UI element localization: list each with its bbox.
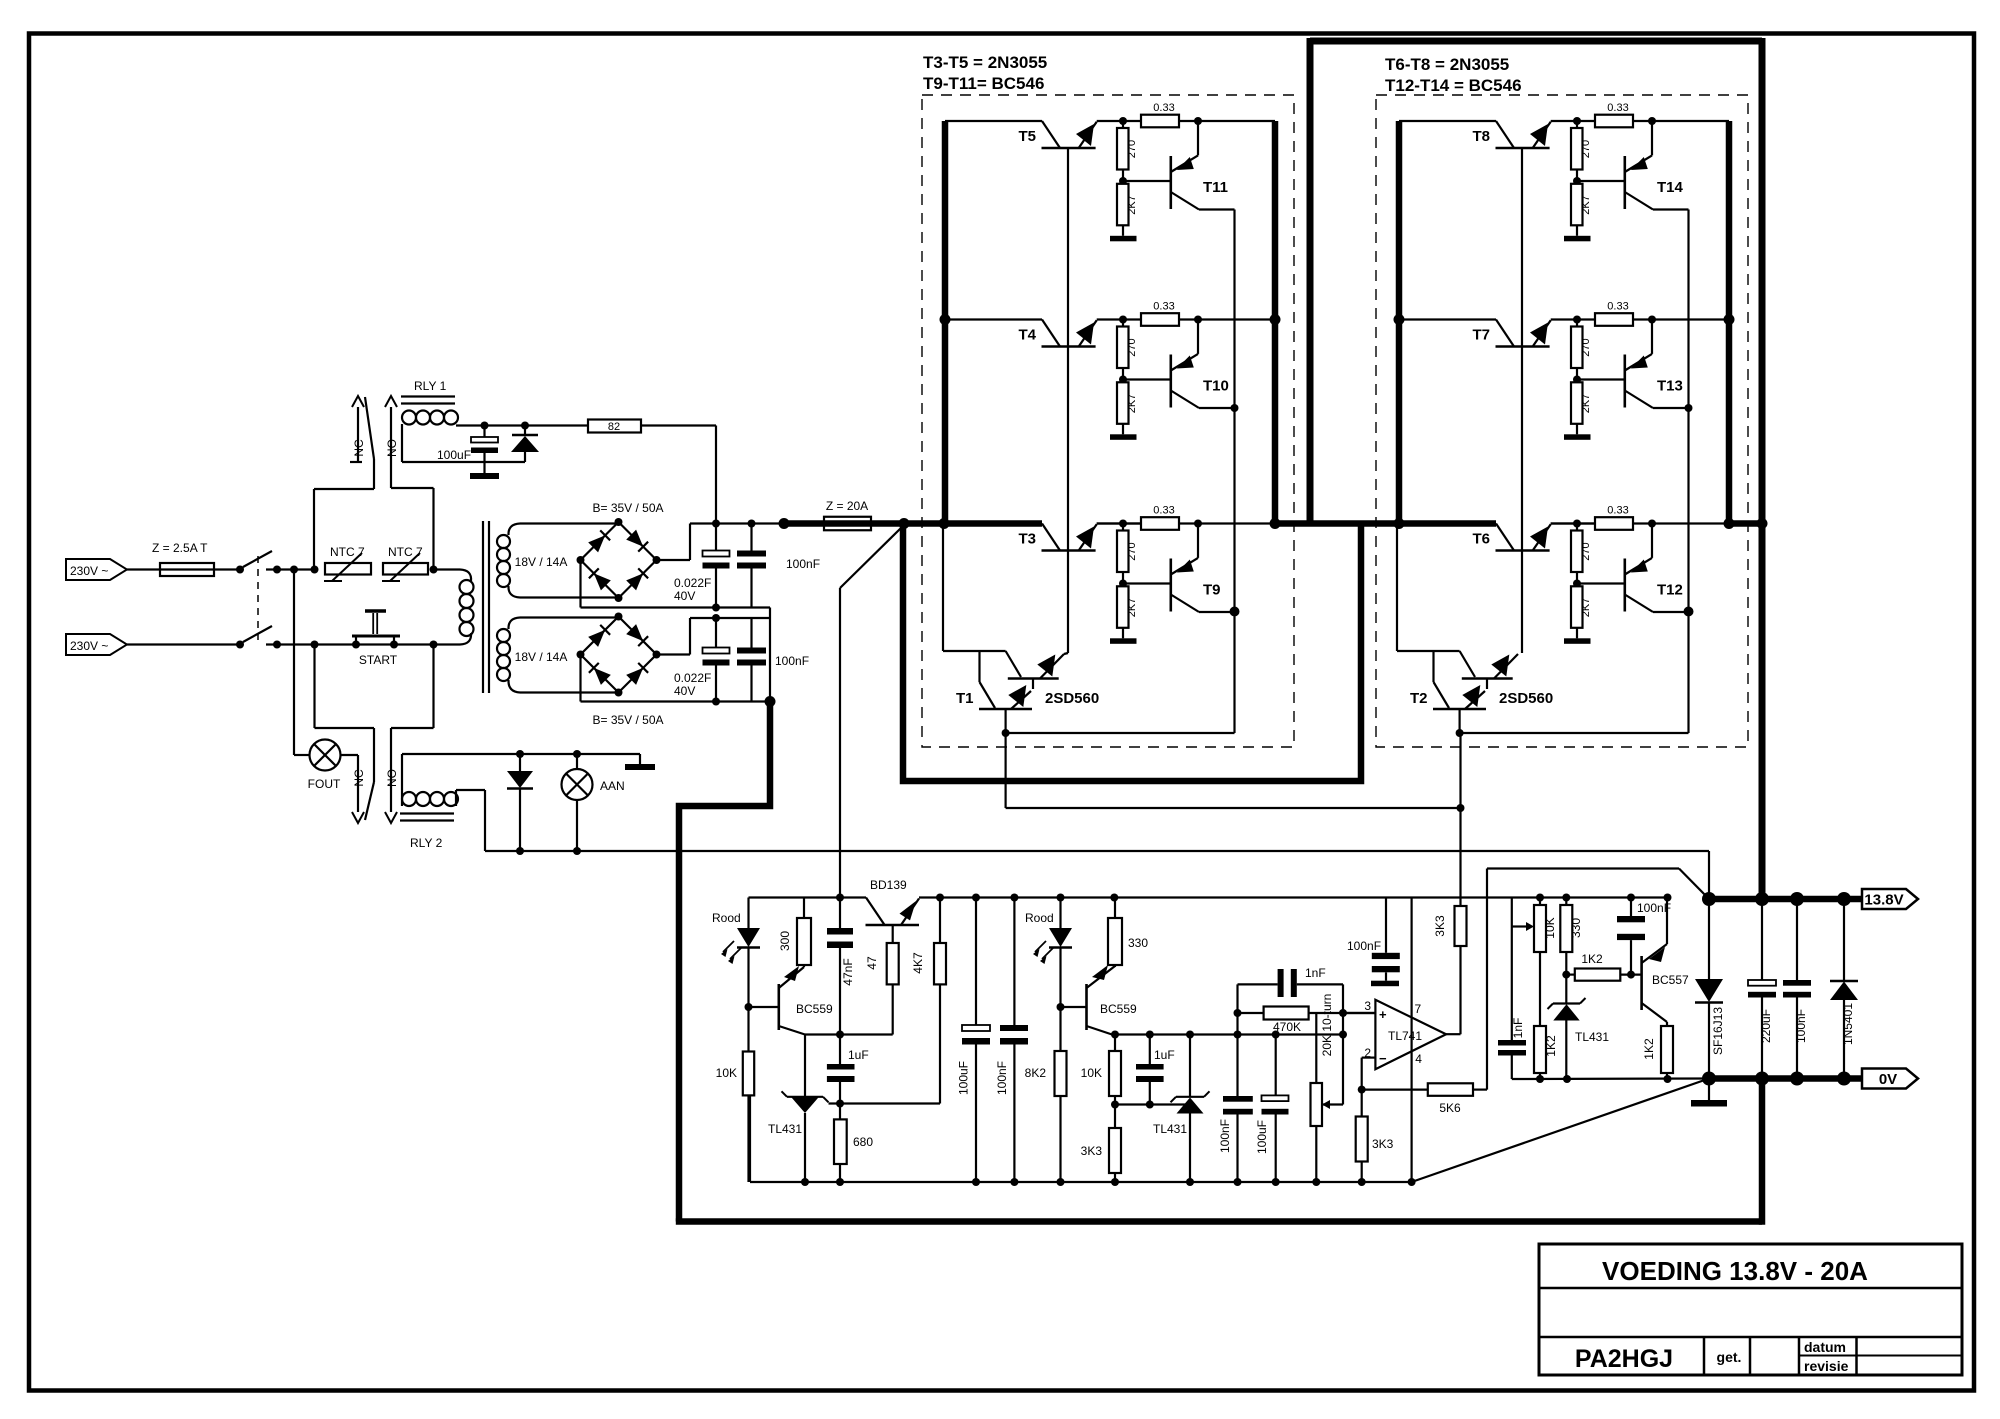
resistor 0.33 T3 [1141,517,1179,530]
svg-text:T7: T7 [1472,327,1490,344]
svg-text:T2: T2 [1410,690,1428,707]
node base T10 [1122,368,1124,382]
resistor 680 [839,1104,841,1120]
svg-text:18V / 14A: 18V / 14A [515,650,568,664]
svg-text:5K6: 5K6 [1439,1101,1461,1115]
wire 0.33 to emitter rail T7 [1633,318,1729,320]
wire op-amp +input [1343,1012,1375,1014]
svg-text:0.33: 0.33 [1607,102,1628,114]
svg-text:470K: 470K [1273,1020,1301,1034]
relay contact RLY2 NO [432,645,434,729]
ground T3 row [1122,628,1124,639]
mechanical link dashed [257,556,259,640]
svg-text:T8: T8 [1472,128,1490,145]
svg-text:0.33: 0.33 [1607,301,1628,313]
resistor 0.33 T5 [1141,115,1179,128]
transistor T2 2SD560 stage B [1432,651,1434,682]
wire T2 base to drivers [1460,732,1689,734]
wire switch1 to NTC node [266,568,315,570]
node base T11 [1122,170,1124,184]
wire emitter T5 [1097,120,1141,122]
capacitor 100uF RLY1 [483,426,485,438]
wire 0.33 to emitter rail T4 [1179,318,1275,320]
svg-text:2K7: 2K7 [1580,394,1592,414]
relay contact RLY1 NC [352,396,364,407]
wire emitter T7 [1551,318,1595,320]
svg-text:T5: T5 [1018,128,1036,145]
wire collector row T4 [945,318,1042,320]
capacitor 1nF limiter [1498,1040,1526,1046]
svg-text:680: 680 [853,1135,873,1149]
wire RLY1 bottom rail [402,461,525,463]
wire emitter T9 [1199,611,1235,613]
svg-text:300: 300 [778,931,792,951]
transformer primary [434,568,461,570]
svg-text:2SD560: 2SD560 [1499,690,1553,707]
svg-text:8K2: 8K2 [1025,1066,1047,1080]
capacitor 100nF bank A [750,524,752,551]
bridge rectifier B2 35V/50A [581,617,657,693]
svg-text:TL741: TL741 [1388,1029,1422,1043]
svg-text:3K3: 3K3 [1433,915,1447,937]
wire mains N to switch [127,643,240,645]
wire fuse to switch [214,568,240,570]
resistor 10K 2 [1114,1035,1116,1052]
wire filter neg vertical [769,608,771,702]
wire op-amp output [1446,1033,1460,1035]
svg-text:100nF: 100nF [1794,1009,1808,1043]
transistor T12 BC546 [1624,559,1627,612]
resistor 470K [1238,1012,1264,1014]
svg-text:FOUT: FOUT [308,777,341,791]
svg-text:330: 330 [1569,918,1583,938]
ground T7 row [1576,424,1578,435]
node base T14 [1576,170,1578,184]
resistor 47 BD139 base [892,925,894,943]
node base T12 [1576,572,1578,586]
resistor 1K2 horizontal [1566,973,1575,975]
wire bank2 base rail [1521,148,1523,653]
wire T2 base down to 3K3 [1459,733,1461,906]
thick bottom wire [676,1218,1762,1225]
svg-text:4K7: 4K7 [911,952,925,974]
resistor 270 T4 row [1122,320,1124,327]
relay contact RLY2 blade [365,782,374,820]
ground T8 row [1576,225,1578,236]
svg-text:TL431: TL431 [1575,1030,1609,1044]
resistor 270 T3 row [1122,524,1124,531]
capacitor 1uF 1 [839,1035,841,1065]
ground T4 row [1122,424,1124,435]
resistor 330 1 [1114,898,1116,919]
wire BC559-2 emitter row [1112,1033,1343,1035]
svg-text:T6-T8 = 2N3055: T6-T8 = 2N3055 [1385,55,1509,74]
wire RLY2 coil right leg [455,790,457,806]
capacitor 100uF reg 1 [1275,1035,1277,1096]
svg-text:1K2: 1K2 [1581,952,1603,966]
wire bank2 row3 emitter thin [1551,522,1595,524]
svg-text:1K2: 1K2 [1544,1035,1558,1057]
wire collector row T7 [1399,318,1496,320]
svg-text:Rood: Rood [712,911,741,925]
svg-text:270: 270 [1126,140,1138,158]
wire emitter T11 [1199,208,1235,210]
resistor 0.33 T4 [1141,313,1179,326]
svg-text:VOEDING 13.8V - 20A: VOEDING 13.8V - 20A [1602,1256,1868,1286]
svg-text:BC559: BC559 [796,1002,833,1016]
resistor 0.33 T8 [1595,115,1633,128]
transistor T14 BC546 [1624,156,1627,209]
svg-text:START: START [359,653,398,667]
resistor 3K3 drive [1459,946,1461,1034]
svg-text:100nF: 100nF [786,557,820,571]
svg-text:NO: NO [385,769,399,787]
resistor 2K7 T5 row [1117,184,1129,226]
wire ground diagonal [1412,1079,1709,1183]
ground RLY2 rail [639,754,641,764]
svg-text:82: 82 [608,421,620,433]
svg-text:40V: 40V [674,589,695,603]
svg-text:270: 270 [1580,338,1592,356]
wire B2 plus [657,653,691,655]
wire 0.33 to emitter rail T8 [1633,120,1729,122]
resistor 0.33 T7 [1595,313,1633,326]
transistor T2 2SD560 stage A [1460,651,1475,677]
svg-text:−: − [1379,1051,1387,1066]
pushbutton START [352,635,400,638]
diode RLY2 flyback [519,754,521,771]
wire B1 minus [579,560,581,608]
capacitor 1uF 2 [1149,1035,1151,1065]
wire emitter T12 [1653,611,1689,613]
svg-text:40V: 40V [674,684,695,698]
thick return loop U [903,526,1361,781]
wire collector row T8 [1399,120,1496,122]
wire FOUT to RLY2 NC [341,754,359,756]
wire RLY2 top rail [402,753,640,755]
svg-text:SF16J13: SF16J13 [1711,1007,1725,1055]
wire switch2 to transformer node [266,643,434,645]
ground RLY1 [483,462,485,473]
connector 230V line 2 [66,634,127,655]
resistor 3K3 emitter BC559-2 [1109,1128,1121,1173]
transistor T11 BC546 [1170,156,1173,209]
svg-text:TL431: TL431 [768,1122,802,1136]
svg-text:T4: T4 [1018,327,1036,344]
capacitor 100nF output [1796,899,1798,980]
dashed box bank 2 [1376,95,1748,747]
zener TL431 3 [1553,1002,1580,1004]
svg-text:1nF: 1nF [1305,966,1326,980]
capacitor 100nF main filter [1013,898,1015,1026]
svg-text:2K7: 2K7 [1126,394,1138,414]
svg-text:3: 3 [1364,999,1371,1013]
svg-text:18V / 14A: 18V / 14A [515,555,568,569]
wire T1 base to T2 base link [1004,733,1006,808]
node base T13 [1576,368,1578,382]
resistor 3K3 inverting [1361,1090,1363,1117]
wire collector row T5 [945,120,1042,122]
resistor 2K7 T6 row [1571,586,1583,628]
capacitor 0.022F 40V bank B [715,618,717,648]
svg-text:7: 7 [1415,1002,1422,1016]
resistor 5K6 [1362,1088,1428,1090]
resistor 270 T5 row [1122,121,1124,128]
wire bus to control dropper [840,526,903,588]
svg-text:100nF: 100nF [995,1061,1009,1095]
bridge rectifier B1 35V/50A [581,522,657,598]
connector 230V line 1 [66,559,127,580]
transistor T7 2N3055 [1496,320,1514,347]
svg-text:100uF: 100uF [1255,1120,1269,1154]
svg-text:datum: datum [1804,1339,1846,1355]
ground op-amp cap [1371,981,1399,987]
svg-text:1nF: 1nF [1511,1018,1525,1039]
svg-text:0.022F: 0.022F [674,671,711,685]
resistor 4K7 [939,898,941,944]
rail bank1 emitters [1272,121,1279,526]
wire RLY2 bottom rail to output sense [485,850,1709,852]
wire minus rail 2 [581,700,771,702]
wire T1 emitter to base rail [1064,653,1068,654]
svg-text:230V ~: 230V ~ [70,564,108,578]
wire limiter ground rail [1512,1077,1709,1080]
svg-text:Z = 2.5A T: Z = 2.5A T [152,541,208,555]
capacitor 0.022F 40V bank A [715,524,717,551]
wire main bus right [1729,520,1762,527]
svg-text:1uF: 1uF [848,1048,869,1062]
wire RLY1 coil out [456,424,588,426]
svg-text:BD139: BD139 [870,878,907,892]
resistor 8K2 [1059,1007,1061,1051]
wire RLY1 NO to NTC-right [391,487,434,489]
wire plus rail 2 [690,617,770,619]
transformer secondary 1 [508,524,520,536]
svg-text:0V: 0V [1879,1071,1897,1088]
svg-text:B= 35V / 50A: B= 35V / 50A [592,501,663,515]
svg-text:NC: NC [352,439,366,457]
svg-text:100nF: 100nF [1347,939,1381,953]
transistor T8 2N3055 [1496,121,1514,148]
svg-text:47nF: 47nF [841,958,855,985]
wire BD139 emitter rail [919,896,1668,898]
svg-text:10K: 10K [1543,917,1557,938]
wire minus rail 1 [581,606,771,608]
svg-text:T11: T11 [1203,179,1228,196]
ground output [1708,1079,1710,1101]
svg-text:1N5401: 1N5401 [1841,1003,1855,1045]
transistor T3 2N3055 [1042,524,1060,551]
rail bank2 emitters [1726,121,1733,526]
wire emitter T4 [1097,318,1141,320]
transistor T13 BC546 [1624,355,1627,408]
svg-text:2K7: 2K7 [1126,598,1138,618]
capacitor 220uF output [1761,899,1763,980]
wire bank2 driver emitters join [1687,210,1689,612]
transistor T1 2SD560 stage B [978,651,980,682]
wire 0.33 to emitter rail T5 [1179,120,1275,122]
wire 4K7 bottom link [829,1102,941,1104]
wire 82 to bus [641,424,716,426]
wire RLY2 coil left to top rail [401,754,403,806]
svg-text:230V ~: 230V ~ [70,639,108,653]
svg-text:revisie: revisie [1804,1358,1849,1374]
svg-text:0.33: 0.33 [1607,505,1628,517]
resistor 2K7 T7 row [1571,382,1583,424]
relay contact RLY1 blade [365,397,374,459]
transformer core [482,521,484,693]
transistor T1 2SD560 stage A [1006,651,1021,677]
svg-text:Rood: Rood [1025,911,1054,925]
svg-text:10K: 10K [1081,1066,1102,1080]
svg-text:PA2HGJ: PA2HGJ [1575,1345,1673,1373]
fuse Z=2.5A T [160,563,214,576]
relay contact RLY1 NO [385,396,397,407]
capacitor 100nF reg 1 [1236,984,1238,1096]
lamp AAN [576,754,578,769]
thick top wire loop [1310,38,1762,45]
connector 13.8V [1862,889,1918,909]
wire collector feed T1 [942,526,944,651]
svg-text:0.33: 0.33 [1153,102,1174,114]
svg-text:B= 35V / 50A: B= 35V / 50A [592,713,663,727]
capacitor 100nF limiter [1630,898,1632,917]
wire output 0V rail [1709,1075,1862,1082]
title block frame [1539,1244,1962,1375]
svg-text:100nF: 100nF [775,654,809,668]
svg-text:270: 270 [1580,140,1592,158]
transistor T4 2N3055 [1042,320,1060,347]
wire raw bus start [690,522,784,524]
svg-text:1uF: 1uF [1154,1048,1175,1062]
svg-text:T3-T5 = 2N3055: T3-T5 = 2N3055 [923,53,1047,72]
transistor T10 BC546 [1170,355,1173,408]
zener TL431 2 [1189,1035,1191,1098]
svg-text:20K 10-turn: 20K 10-turn [1320,994,1334,1057]
wire feedback sense [1486,869,1488,1090]
resistor 10K 1 [747,1007,749,1052]
transformer secondary 2 [508,618,520,630]
resistor 1K2 left [1534,1026,1546,1073]
wire T1 base to drivers [1006,732,1235,734]
resistor 330 limiter [1565,898,1567,906]
potentiometer 10K limiter [1512,925,1527,927]
svg-text:get.: get. [1717,1349,1742,1365]
svg-text:13.8V: 13.8V [1864,892,1903,909]
resistor 0.33 T6 [1595,517,1633,530]
wire bank1 row3 emitter thin [1097,522,1141,524]
svg-text:2SD560: 2SD560 [1045,690,1099,707]
resistor 2K7 T3 row [1117,586,1129,628]
capacitor 100nF op-amp [1385,898,1387,953]
resistor 2K7 T8 row [1571,184,1583,226]
wire collector feed T2 [1396,526,1398,651]
wire emitter T13 [1653,407,1689,409]
wire emitter T6 [1551,522,1595,524]
wire emitter T10 [1199,407,1235,409]
svg-text:100uF: 100uF [437,448,471,462]
thick negative route [679,702,770,1222]
svg-text:2K7: 2K7 [1580,598,1592,618]
svg-text:RLY 1: RLY 1 [414,379,447,393]
svg-text:0.022F: 0.022F [674,576,711,590]
wire emitter T14 [1653,208,1689,210]
svg-text:T12: T12 [1657,582,1683,599]
svg-text:2K7: 2K7 [1580,195,1592,215]
zener TL431 1 [804,1035,806,1097]
svg-text:NTC 7: NTC 7 [388,545,423,559]
resistor 270 T6 row [1576,524,1578,531]
wire limiter left leg [1511,898,1513,1041]
wire control raw rail [749,896,867,898]
svg-text:270: 270 [1126,338,1138,356]
svg-text:Z = 20A: Z = 20A [826,499,868,513]
node base T9 [1122,572,1124,586]
svg-text:47: 47 [865,956,879,970]
resistor 1K2 right [1666,1022,1668,1026]
resistor 300 [803,898,805,919]
capacitor 47nF [839,898,841,929]
relay coil RLY2 [402,792,416,806]
wire emitter T3 [1097,522,1141,524]
transistor T5 2N3055 [1042,121,1060,148]
resistor 270 T8 row [1576,121,1578,128]
svg-text:NC: NC [352,769,366,787]
transistor BC557 [1640,956,1643,1010]
transistor T6 2N3055 [1496,524,1514,551]
op-amp TL741 [1375,1000,1446,1069]
resistor 82 [588,420,641,433]
rail bank2 collectors [1396,121,1403,526]
svg-text:T9: T9 [1203,582,1221,599]
svg-text:270: 270 [1126,542,1138,560]
svg-text:0.33: 0.33 [1153,505,1174,517]
svg-text:220uF: 220uF [1759,1009,1773,1043]
wire 10K2 bottom link [1115,1103,1190,1105]
wire output 13.8V rail [1709,896,1862,903]
capacitor 100nF bank B [750,618,752,648]
svg-text:0.33: 0.33 [1153,301,1174,313]
svg-text:TL431: TL431 [1153,1122,1187,1136]
connector 0V [1862,1069,1918,1089]
svg-text:NTC 7: NTC 7 [330,545,365,559]
wire base T1 [1004,709,1006,733]
svg-text:T6: T6 [1472,531,1490,548]
wire op-amp -input [1362,1056,1376,1058]
svg-text:4: 4 [1415,1052,1422,1066]
wire control ground rail [750,1181,1412,1183]
potentiometer 20K 10-turn [1315,1013,1317,1083]
svg-text:10K: 10K [716,1066,737,1080]
wire main bus mid [1275,520,1496,527]
svg-text:100uF: 100uF [957,1061,971,1095]
diode 1N5401 [1843,899,1845,981]
transistor BC559 2 [1085,984,1088,1030]
wire BC559-1 emitter node [805,1033,840,1035]
ground T6 row [1576,628,1578,639]
svg-text:T3: T3 [1018,531,1036,548]
resistor 2K7 T4 row [1117,382,1129,424]
dashed box bank 1 [922,95,1294,747]
svg-text:T9-T11= BC546: T9-T11= BC546 [923,74,1044,93]
wire 0.33 to emitter rail T6 [1633,522,1729,524]
fuse Z=20A [824,517,871,531]
wire transformer node to RLY2 blade [313,645,315,729]
wire main bus left [784,520,1042,527]
svg-text:270: 270 [1580,542,1592,560]
wire 0.33 to emitter rail T3 [1179,522,1275,524]
wire B2 minus [579,655,581,702]
